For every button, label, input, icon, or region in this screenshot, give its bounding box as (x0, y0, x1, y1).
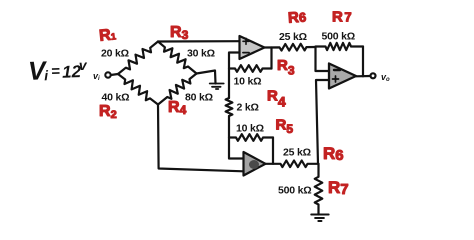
wire chain to node B (228, 116, 230, 138)
svg-text:R6: R6 (323, 144, 344, 164)
svg-text:R6: R6 (287, 9, 306, 27)
resistor R3 10k feedback U1 (229, 65, 272, 72)
op-amp U2 (bottom) (244, 152, 266, 176)
svg-text:vi: vi (93, 71, 100, 82)
wire bridge right vertex to ground (197, 71, 216, 84)
svg-text:40 kΩ: 40 kΩ (102, 92, 130, 104)
op-amp U1 (top) (240, 36, 265, 59)
svg-text:R4: R4 (168, 99, 187, 117)
output terminal vo (371, 73, 376, 78)
resistor R1 20k bridge top-left (118, 42, 158, 75)
svg-text:25 kΩ: 25 kΩ (279, 31, 307, 43)
resistor R3 30k bridge top-right (158, 42, 197, 74)
resistor R4 2k gain (226, 98, 233, 116)
wire U1 inverting input down to node A (229, 53, 240, 69)
svg-text:20 kΩ: 20 kΩ (101, 48, 129, 60)
wire feedback down to U2 output (272, 138, 274, 164)
svg-text:10 kΩ: 10 kΩ (236, 123, 264, 135)
op-amp U3 (output) (329, 64, 356, 89)
svg-text:i: i (44, 67, 50, 83)
svg-text:R4: R4 (267, 88, 286, 110)
svg-text:R2: R2 (99, 103, 117, 121)
wire node B down to U2 inverting input (229, 138, 244, 159)
wire junction down to U3 inverting input (316, 47, 330, 71)
svg-text:R3: R3 (277, 57, 295, 78)
wire input to bridge (111, 74, 118, 75)
wire feedback down to output (362, 47, 364, 77)
resistor R5 10k feedback U2 (229, 134, 273, 141)
svg-text:500 kΩ: 500 kΩ (278, 185, 312, 197)
svg-text:R7: R7 (328, 178, 349, 198)
svg-text:vo: vo (381, 72, 390, 83)
svg-text:25 kΩ: 25 kΩ (283, 147, 311, 159)
svg-text:=: = (51, 63, 61, 80)
svg-text:v: v (79, 57, 89, 73)
wire bridge bottom vertex down and right to U2 + input (158, 105, 244, 172)
resistor R6 25k (top) (265, 44, 316, 51)
output wire (356, 75, 370, 78)
svg-text:R7: R7 (332, 9, 353, 26)
svg-text:10 kΩ: 10 kΩ (234, 76, 262, 88)
wire feedback up to U1 output (270, 48, 272, 69)
svg-text:R1: R1 (98, 26, 116, 45)
svg-text:80 kΩ: 80 kΩ (185, 92, 213, 104)
ground (bridge) (210, 84, 224, 90)
wire node A down chain (228, 69, 230, 99)
resistor R7 500k (bottom) (315, 164, 323, 215)
wire U3 + input to bottom node (316, 80, 329, 164)
svg-text:30 kΩ: 30 kΩ (187, 48, 215, 60)
svg-text:R5: R5 (276, 117, 294, 137)
resistor R6 25k (bottom) (266, 161, 319, 168)
resistor R2 40k bridge bottom-left (118, 74, 158, 105)
svg-text:R3: R3 (170, 24, 189, 42)
source Vi label (27, 54, 88, 86)
ground (bottom) (311, 215, 329, 222)
resistor R7 500k feedback (top) (316, 43, 364, 50)
resistor R4 80k bridge bottom-right (158, 74, 197, 105)
svg-text:500 kΩ: 500 kΩ (322, 31, 356, 43)
wire bridge top to op-amp U1 + input (158, 40, 240, 42)
svg-text:2 kΩ: 2 kΩ (237, 102, 259, 114)
